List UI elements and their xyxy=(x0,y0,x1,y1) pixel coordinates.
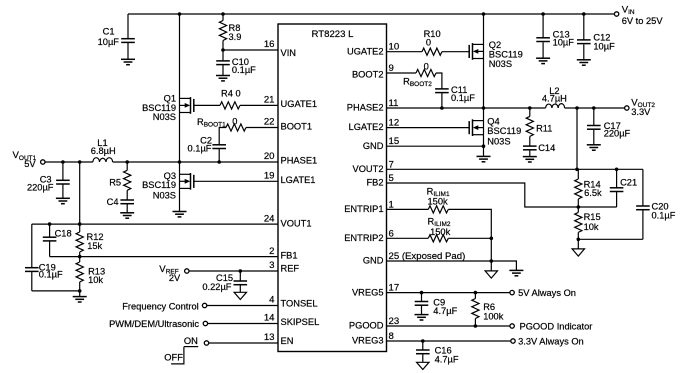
pin 13 EN xyxy=(264,332,294,346)
capacitor C21 xyxy=(610,169,637,207)
node phase1-Q1Q3 xyxy=(178,160,182,164)
inductor L1 6.8uH xyxy=(91,138,116,162)
node rail-Q2 xyxy=(482,12,486,16)
ground (C4) xyxy=(120,213,134,218)
wire pin16 VIN xyxy=(223,49,278,51)
svg-text:4.7µF: 4.7µF xyxy=(433,306,457,316)
inductor L2 4.7uH xyxy=(542,86,567,108)
transistor Q3 BSC119 N03S xyxy=(142,162,194,212)
resistor RILIM1 150k xyxy=(427,187,450,213)
wire SKIPSEL net xyxy=(208,323,278,325)
svg-text:0: 0 xyxy=(232,116,237,126)
svg-text:2V: 2V xyxy=(169,273,181,283)
node Frequency Control terminal xyxy=(122,301,207,311)
wire PGOOD net xyxy=(387,325,511,327)
pin 20 PHASE1 xyxy=(264,151,317,165)
pin 9 BOOT2 xyxy=(352,63,394,80)
pin 7 VOUT2 xyxy=(353,159,394,174)
svg-text:OFF: OFF xyxy=(164,352,183,362)
svg-text:13: 13 xyxy=(264,332,275,343)
node phase1-fb xyxy=(78,160,82,164)
node R8-C10-pin16 xyxy=(221,48,225,52)
svg-text:ENTRIP2: ENTRIP2 xyxy=(344,233,383,243)
capacitor C16 4.7uF xyxy=(416,341,459,365)
svg-text:14: 14 xyxy=(264,313,275,324)
resistor RILIM2 150k xyxy=(428,216,451,242)
capacitor C14 xyxy=(523,143,555,157)
node vout2-C17 xyxy=(592,106,596,110)
svg-text:VOUT2: VOUT2 xyxy=(353,164,384,174)
svg-text:8: 8 xyxy=(389,331,394,342)
capacitor C4 xyxy=(107,197,134,213)
node rail-Q1 xyxy=(178,12,182,16)
node ENTRIP2-vert xyxy=(490,237,494,241)
wire FB2 net xyxy=(387,183,617,207)
pin 23 PGOOD xyxy=(349,316,399,331)
svg-text:6: 6 xyxy=(389,228,394,239)
pin 19 LGATE1 xyxy=(264,171,316,185)
wire REF net xyxy=(189,270,278,272)
pin 21 UGATE1 xyxy=(264,95,317,109)
pin 11 PHASE2 xyxy=(347,98,399,113)
svg-text:VOUT1: VOUT1 xyxy=(281,218,312,228)
wire VIN top rail xyxy=(128,13,615,15)
svg-text:10k: 10k xyxy=(88,275,103,285)
node pin7-branch xyxy=(575,168,579,172)
ground (C10) xyxy=(216,76,230,81)
capacitor C17 xyxy=(587,108,631,145)
node phase1-C3 xyxy=(61,160,65,164)
svg-text:BSC119: BSC119 xyxy=(487,126,521,136)
svg-text:21: 21 xyxy=(264,95,275,106)
svg-text:4: 4 xyxy=(269,295,275,306)
wire UGATE1 gate net xyxy=(194,104,278,106)
svg-text:3.9: 3.9 xyxy=(229,32,242,42)
svg-text:4.7µF: 4.7µF xyxy=(435,355,459,365)
pin 3 REF xyxy=(269,260,299,273)
svg-text:10µF: 10µF xyxy=(553,37,575,47)
svg-text:0.1µF: 0.1µF xyxy=(652,211,676,221)
node rail-C12 xyxy=(582,12,586,16)
svg-text:UGATE2: UGATE2 xyxy=(347,46,384,56)
svg-text:22: 22 xyxy=(264,117,275,128)
wire pin15 GND net xyxy=(387,145,484,147)
wire BOOT2 net xyxy=(387,73,442,89)
node pin24-C18 xyxy=(48,222,52,226)
svg-text:12: 12 xyxy=(389,118,400,129)
svg-text:6.8µH: 6.8µH xyxy=(91,146,116,156)
node VIN terminal xyxy=(614,5,663,27)
wire BOOT1 net xyxy=(219,128,278,145)
svg-text:2: 2 xyxy=(269,246,274,257)
capacitor C11 xyxy=(435,85,475,103)
svg-text:R4 0: R4 0 xyxy=(221,89,241,99)
svg-text:16: 16 xyxy=(264,39,275,50)
svg-text:3.3V Always On: 3.3V Always On xyxy=(518,337,584,347)
pin 25 GND Exposed Pad xyxy=(363,251,465,266)
svg-text:5V Always On: 5V Always On xyxy=(518,288,576,298)
resistor R10 0 xyxy=(422,29,442,55)
svg-text:220µF: 220µF xyxy=(604,128,631,138)
svg-text:20: 20 xyxy=(264,151,275,162)
resistor R15 10k xyxy=(575,207,601,249)
ground (C12) xyxy=(577,60,591,65)
svg-text:3.3V: 3.3V xyxy=(631,107,651,117)
svg-text:6.5k: 6.5k xyxy=(584,188,602,198)
pin 22 BOOT1 xyxy=(264,117,312,132)
svg-text:R6: R6 xyxy=(483,302,495,312)
pin 15 GND xyxy=(363,136,399,151)
node pin24-R12 xyxy=(78,222,82,226)
svg-text:0.1µF: 0.1µF xyxy=(451,93,475,103)
svg-text:C4: C4 xyxy=(107,197,119,207)
svg-text:100k: 100k xyxy=(483,312,504,322)
ground (C15 triangle) xyxy=(234,292,246,299)
svg-text:10µF: 10µF xyxy=(593,41,615,51)
capacitor C12 xyxy=(577,14,615,60)
ground (R15 triangle) xyxy=(572,249,584,256)
svg-text:Frequency Control: Frequency Control xyxy=(122,301,198,311)
ground (pin25 GND) xyxy=(509,270,523,275)
svg-text:UGATE1: UGATE1 xyxy=(281,99,318,109)
svg-text:ENTRIP1: ENTRIP1 xyxy=(344,204,383,214)
svg-text:4.7µH: 4.7µH xyxy=(542,93,567,103)
node 5V Always On terminal xyxy=(510,288,576,298)
node VREG3-C16 xyxy=(421,339,425,343)
svg-text:7: 7 xyxy=(389,159,394,170)
capacitor C10 xyxy=(216,50,256,76)
node GND25-vert xyxy=(490,259,494,263)
resistor R11 xyxy=(526,108,552,146)
svg-text:BOOT2: BOOT2 xyxy=(352,70,384,80)
resistor RBOOT2 0 xyxy=(403,61,436,88)
resistor R6 100k xyxy=(472,293,504,326)
resistor R4 0 xyxy=(220,89,241,109)
transistor Q2 BSC119 N03S xyxy=(469,14,523,108)
svg-text:N03S: N03S xyxy=(489,59,512,69)
svg-text:19: 19 xyxy=(264,171,275,182)
node R15-C20 bottom xyxy=(577,238,581,242)
wire ENTRIP1 net xyxy=(387,209,492,271)
node PGOOD-R6 xyxy=(474,324,478,328)
svg-text:0.1µF: 0.1µF xyxy=(232,65,256,75)
svg-text:REF: REF xyxy=(281,264,300,274)
svg-text:BOOT1: BOOT1 xyxy=(281,122,313,132)
svg-text:LGATE2: LGATE2 xyxy=(349,122,384,132)
node phase2-R11 xyxy=(528,106,532,110)
pin 1 ENTRIP1 xyxy=(344,199,394,214)
wire PHASE1 net xyxy=(45,149,278,163)
svg-text:24: 24 xyxy=(264,213,275,224)
pin 6 ENTRIP2 xyxy=(344,228,394,243)
node pin7-C21 xyxy=(615,168,619,172)
capacitor C2 xyxy=(188,136,226,154)
svg-text:0: 0 xyxy=(426,38,431,48)
svg-text:0.1µF: 0.1µF xyxy=(188,144,212,154)
wire pin25 GND net xyxy=(387,261,517,270)
svg-text:10k: 10k xyxy=(584,222,599,232)
node PGOOD Indicator terminal xyxy=(510,321,592,331)
svg-text:FB1: FB1 xyxy=(281,250,298,260)
node Q4-pin15 xyxy=(482,144,486,148)
svg-text:150k: 150k xyxy=(428,196,449,206)
svg-text:R15: R15 xyxy=(584,212,601,222)
svg-text:15: 15 xyxy=(389,136,400,147)
svg-text:TONSEL: TONSEL xyxy=(281,298,318,308)
wire pin24 VOUT1 sense xyxy=(32,224,278,291)
ground (C9) xyxy=(415,315,429,320)
wire EN net xyxy=(208,342,278,344)
svg-text:C21: C21 xyxy=(620,178,637,188)
svg-text:PHASE1: PHASE1 xyxy=(281,156,318,166)
wire ENTRIP2 net xyxy=(387,237,492,239)
transistor Q4 BSC119 N03S xyxy=(469,108,521,156)
wire FB1 net xyxy=(50,256,278,258)
svg-text:VIN: VIN xyxy=(281,48,297,58)
node phase2-Q2Q4 xyxy=(482,106,486,110)
node phase1-R5 xyxy=(125,160,129,164)
node VREG5-C9 xyxy=(420,291,424,295)
svg-text:0.22µF: 0.22µF xyxy=(202,282,231,292)
svg-text:5: 5 xyxy=(389,173,394,184)
svg-text:PGOOD Indicator: PGOOD Indicator xyxy=(520,321,593,331)
svg-text:23: 23 xyxy=(389,316,400,327)
svg-text:SKIPSEL: SKIPSEL xyxy=(281,317,320,327)
svg-text:C14: C14 xyxy=(538,143,555,153)
svg-text:LGATE1: LGATE1 xyxy=(281,175,316,185)
svg-text:3: 3 xyxy=(269,260,274,271)
capacitor C20 xyxy=(636,169,676,239)
wire pin7 VOUT2 sense net xyxy=(387,108,643,169)
svg-text:PWM/DEM/Ultrasonic: PWM/DEM/Ultrasonic xyxy=(109,319,199,329)
svg-text:FB2: FB2 xyxy=(366,178,383,188)
node R13-C19 bottom xyxy=(78,289,82,293)
svg-text:Q2: Q2 xyxy=(489,40,501,50)
svg-text:9: 9 xyxy=(389,63,394,74)
capacitor C19 xyxy=(25,263,63,280)
svg-text:PHASE2: PHASE2 xyxy=(347,103,384,113)
svg-text:25 (Exposed Pad): 25 (Exposed Pad) xyxy=(389,251,466,262)
node phase2-C11 xyxy=(440,106,444,110)
node phase1-C2 xyxy=(217,160,221,164)
wire LGATE1 gate net xyxy=(194,180,278,182)
svg-text:220µF: 220µF xyxy=(27,182,54,192)
capacitor C15 0.22uF xyxy=(202,271,247,292)
svg-text:VREG3: VREG3 xyxy=(352,336,384,346)
transistor Q1 BSC119 N03S xyxy=(142,14,194,162)
svg-text:0.1µF: 0.1µF xyxy=(39,270,63,280)
ground (C1) xyxy=(121,59,135,64)
resistor R5 xyxy=(109,162,131,200)
svg-text:N03S: N03S xyxy=(153,190,176,200)
svg-text:10µF: 10µF xyxy=(98,37,120,47)
node rail-R8 xyxy=(221,12,225,16)
pin 5 FB2 xyxy=(366,173,393,188)
wire VREG3 net xyxy=(387,340,512,342)
node REF-C15 xyxy=(239,269,243,273)
wire VREG5 net xyxy=(387,292,511,294)
resistor R12 15k xyxy=(76,224,103,257)
resistor R8 3.9 xyxy=(219,14,241,50)
ground (ENTRIP triangle) xyxy=(485,271,497,278)
wire R15 bottom to C20 bottom xyxy=(578,238,643,240)
pin 24 VOUT1 xyxy=(264,213,312,228)
svg-text:0: 0 xyxy=(424,61,429,71)
svg-text:GND: GND xyxy=(363,141,384,151)
svg-text:R5: R5 xyxy=(109,178,121,188)
svg-text:5V: 5V xyxy=(24,159,36,169)
svg-text:N03S: N03S xyxy=(153,112,176,122)
resistor RBOOT1 0 xyxy=(197,116,246,131)
ground (Q3) xyxy=(173,212,187,217)
ground (C16 triangle) xyxy=(417,362,429,369)
svg-text:17: 17 xyxy=(389,283,400,294)
svg-text:EN: EN xyxy=(281,336,294,346)
svg-text:6V to 25V: 6V to 25V xyxy=(622,16,664,26)
wire VOUT1 feedback tap vertical xyxy=(79,162,81,224)
node PWM/DEM/Ultrasonic terminal xyxy=(109,319,207,329)
op-amp U1 RT8223L body xyxy=(278,24,387,352)
node VREG5-R6 xyxy=(474,291,478,295)
ground (C14) xyxy=(523,157,537,162)
ground (C13) xyxy=(536,58,550,63)
capacitor C3 xyxy=(27,162,70,198)
pin 4 TONSEL xyxy=(269,295,317,309)
node FB2-R14R15 xyxy=(577,205,581,209)
pin 14 SKIPSEL xyxy=(264,313,319,327)
node EN ON/OFF switch xyxy=(164,336,208,364)
svg-text:ON: ON xyxy=(184,336,198,346)
pin 17 VREG5 xyxy=(352,283,399,298)
svg-text:GND: GND xyxy=(363,256,384,266)
node FB1-R12R13 xyxy=(78,255,82,259)
svg-text:C18: C18 xyxy=(55,229,72,239)
wire UGATE2 gate net xyxy=(387,51,470,53)
svg-text:10: 10 xyxy=(389,42,400,53)
svg-text:11: 11 xyxy=(389,98,399,109)
wire LGATE2 gate net xyxy=(387,127,470,129)
pin 16 VIN xyxy=(264,39,296,58)
svg-text:150k: 150k xyxy=(430,227,451,237)
ground (C3) xyxy=(56,198,70,203)
resistor R14 6.5k xyxy=(575,169,602,207)
node 3.3V Always On terminal xyxy=(511,337,584,347)
ground (C17) xyxy=(587,145,601,150)
svg-text:C1: C1 xyxy=(103,27,115,37)
svg-text:BSC119: BSC119 xyxy=(142,180,176,190)
node VREF terminal xyxy=(159,264,189,283)
ground (R13) xyxy=(73,297,87,302)
svg-text:1: 1 xyxy=(389,199,394,210)
svg-text:PGOOD: PGOOD xyxy=(349,321,384,331)
wire PHASE2 net xyxy=(387,93,625,108)
pin 8 VREG3 xyxy=(352,331,394,346)
capacitor C13 xyxy=(536,14,574,58)
svg-text:15k: 15k xyxy=(87,241,102,251)
node rail-C13 xyxy=(541,12,545,16)
svg-text:VREG5: VREG5 xyxy=(352,287,384,297)
svg-text:R11: R11 xyxy=(536,124,552,134)
svg-text:RT8223 L: RT8223 L xyxy=(312,29,355,40)
svg-text:N03S: N03S xyxy=(487,137,510,147)
pin 10 UGATE2 xyxy=(347,42,399,57)
capacitor C9 4.7uF xyxy=(415,293,458,317)
svg-text:Q4: Q4 xyxy=(487,117,499,127)
wire TONSEL net xyxy=(207,305,278,307)
node vout2-branch xyxy=(575,106,579,110)
resistor R13 10k xyxy=(76,257,105,297)
node VOUT2 terminal xyxy=(625,97,656,117)
capacitor C1 xyxy=(98,14,135,59)
ground (Q4) xyxy=(477,156,491,161)
node VOUT1 terminal xyxy=(13,150,46,169)
capacitor C18 xyxy=(43,224,72,257)
pin 2 FB1 xyxy=(269,246,297,260)
pin 12 LGATE2 xyxy=(349,118,400,133)
